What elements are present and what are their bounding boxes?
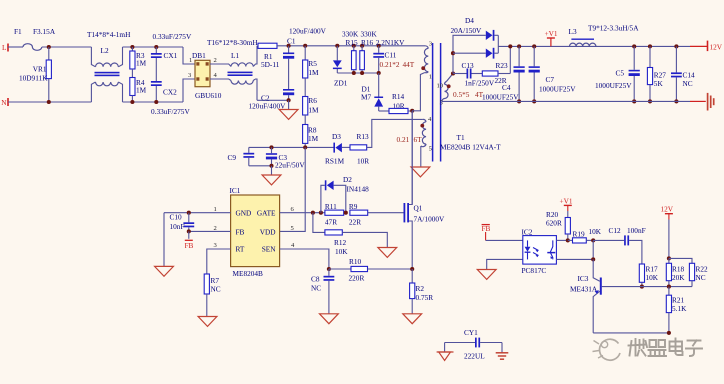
junction C3 bottom	[269, 164, 273, 168]
wire secondary to D4	[453, 35, 486, 73]
svg-text:L: L	[2, 43, 7, 52]
svg-text:C7: C7	[546, 75, 555, 84]
svg-text:L1: L1	[231, 51, 239, 60]
svg-text:10K: 10K	[589, 227, 602, 236]
inductor L3 T9*12-3.3uH/5A	[569, 24, 640, 47]
winding note 0.21 6T	[397, 135, 423, 144]
svg-text:ME8204B: ME8204B	[233, 269, 264, 278]
optocoupler IC2 PC817C	[522, 228, 557, 276]
junction source node	[410, 267, 414, 271]
junction C4 bottom	[517, 99, 521, 103]
junction FB node	[187, 229, 191, 233]
svg-text:NC: NC	[211, 285, 221, 294]
svg-text:CX1: CX1	[164, 51, 178, 60]
junction C7 bottom	[532, 99, 536, 103]
wire FB to opto anode	[486, 239, 523, 241]
bridge rectifier DB1 GBU610	[192, 51, 222, 100]
inductor L2 common mode choke T14*8*4-1mH	[87, 30, 131, 102]
resistor R22 NC	[689, 263, 708, 286]
capacitor C5 1000UF25V	[595, 46, 640, 101]
pin 4 DB1	[214, 72, 218, 79]
svg-text:47R: 47R	[325, 218, 337, 227]
svg-text:R16: R16	[361, 38, 374, 47]
svg-text:6T: 6T	[414, 135, 423, 144]
capacitor C4 1000UF25V	[482, 46, 525, 101]
svg-text:ME431A: ME431A	[570, 285, 598, 294]
net label FB left	[185, 231, 194, 250]
transformer T1 aux winding 6T	[421, 119, 426, 167]
resistor R19 10K	[568, 227, 602, 243]
svg-text:1M: 1M	[308, 134, 319, 143]
wire opto collector to R20	[556, 239, 567, 241]
diode D2 IN4148	[321, 175, 369, 213]
svg-text:T14*8*4-1mH: T14*8*4-1mH	[87, 30, 131, 39]
capacitor C13 1nF/250V	[453, 61, 495, 88]
svg-text:R10: R10	[349, 257, 362, 266]
resistor R27 5K	[647, 46, 666, 101]
wire L2 to bridge top rail	[123, 46, 184, 48]
pin 1 IC1	[214, 206, 217, 213]
wire R9 to gate	[368, 212, 404, 214]
resistor R1 5D-11	[258, 43, 280, 69]
diode D4 lower	[486, 48, 499, 59]
transistor Q2 mosfet Q1 7A/1000V	[404, 111, 446, 269]
svg-text:R23: R23	[496, 61, 509, 70]
wire D4 lower branch	[453, 52, 486, 54]
wire fuse to L2	[42, 46, 92, 48]
svg-text:0.33uF/275V: 0.33uF/275V	[153, 32, 192, 41]
junction D2 left tap	[319, 211, 323, 215]
svg-text:10: 10	[437, 83, 444, 90]
svg-text:120uF/400V: 120uF/400V	[289, 27, 327, 36]
wire R1 to C1 node	[277, 45, 305, 47]
svg-text:1M: 1M	[136, 86, 147, 95]
svg-text:222UL: 222UL	[464, 352, 485, 361]
resistor R11 47R	[325, 202, 344, 227]
svg-text:T16*12*8-30mH: T16*12*8-30mH	[207, 38, 258, 47]
wire SEN pin4	[280, 249, 329, 269]
resistor R12 10K	[313, 213, 387, 257]
wire to R22 top	[669, 258, 692, 263]
svg-text:C13: C13	[462, 61, 475, 70]
ground under IC1 GND	[155, 213, 174, 277]
svg-text:10nF: 10nF	[170, 222, 185, 231]
resistor R4 1M	[130, 78, 147, 103]
svg-text:R9: R9	[349, 202, 358, 211]
resistor R17 10K	[639, 264, 658, 287]
wire to DB1 pin1	[183, 47, 195, 64]
svg-text:100nF: 100nF	[627, 226, 646, 235]
transformer T1 core	[433, 43, 441, 162]
net label FB right	[482, 224, 491, 240]
svg-text:FB: FB	[185, 241, 194, 250]
junction R15 bottom	[352, 71, 356, 75]
svg-text:R11: R11	[325, 202, 337, 211]
junction C14 bottom	[674, 99, 678, 103]
wire L1 bottom to C2	[257, 99, 289, 101]
wire clamp bottom line	[337, 72, 378, 74]
winding note 0.5*5 4T	[453, 90, 484, 99]
svg-text:R14: R14	[392, 92, 405, 101]
svg-text:M7: M7	[361, 93, 371, 102]
resistor R2 0.75R	[410, 269, 434, 314]
junction R21 bottom	[667, 331, 671, 335]
svg-text:220R: 220R	[349, 273, 365, 282]
svg-text:D4: D4	[465, 16, 474, 25]
svg-text:N: N	[1, 98, 7, 107]
svg-text:10D911K: 10D911K	[19, 73, 48, 82]
junction C1 top	[287, 37, 296, 48]
svg-text:C10: C10	[170, 213, 183, 222]
node VDD line	[249, 146, 334, 148]
pin 4 IC1	[291, 242, 295, 249]
svg-text:20A/150V: 20A/150V	[451, 26, 483, 35]
svg-text:+V1: +V1	[545, 29, 558, 38]
wire snubber to rail	[509, 46, 511, 73]
svg-text:1000UF25V: 1000UF25V	[539, 84, 576, 93]
svg-text:10K: 10K	[646, 273, 659, 282]
wire R6-R8	[304, 115, 306, 125]
junction C3 top	[269, 145, 273, 149]
wire D4 output manifold	[498, 35, 690, 53]
svg-text:1M: 1M	[136, 59, 147, 68]
svg-text:12V: 12V	[661, 205, 674, 214]
svg-text:VDD: VDD	[260, 228, 276, 237]
resistor R3 1M	[130, 47, 147, 69]
junction C10 top	[187, 211, 191, 215]
winding note 0.21*2 44T	[380, 60, 415, 69]
capacitor C10 10nF	[170, 213, 195, 232]
capacitor C3 22uF/50V	[266, 147, 305, 169]
resistor R23 22R	[482, 61, 510, 85]
junction C11 top	[377, 44, 381, 48]
wire FB pin2	[189, 230, 231, 232]
svg-text:620R: 620R	[546, 218, 562, 227]
phase dot primary	[421, 66, 425, 70]
capacitor CX2 0.33uF/275V	[151, 81, 191, 116]
junction R20 bottom	[566, 238, 570, 242]
svg-text:F3.15A: F3.15A	[33, 27, 56, 36]
junction CX1 top	[154, 45, 158, 49]
pin 1 DB1	[189, 57, 192, 64]
svg-text:0.5*5: 0.5*5	[453, 90, 470, 99]
node 12V label right	[661, 205, 674, 259]
label T1 ME8204B 12V4A-T	[440, 133, 501, 152]
resistor R13 10R	[350, 132, 369, 166]
capacitor C1 120uF/400V	[283, 27, 327, 90]
svg-text:SEN: SEN	[262, 245, 277, 254]
junction R15 top	[352, 44, 356, 48]
junction R16 bottom	[360, 71, 364, 75]
resistor R8 1M	[303, 125, 319, 148]
wire opto cathode to ground	[487, 259, 523, 269]
svg-text:1M: 1M	[308, 68, 319, 77]
svg-text:22R: 22R	[349, 218, 361, 227]
svg-text:7A/1000V: 7A/1000V	[414, 215, 446, 224]
junction ZD1 top	[335, 44, 339, 48]
svg-text:1000UF25V: 1000UF25V	[482, 93, 519, 102]
junction C5 top	[632, 44, 636, 48]
wire secondary bottom rail	[442, 99, 690, 102]
svg-text:D2: D2	[343, 175, 352, 184]
wire R5-R6	[304, 78, 306, 97]
junction R12 tap	[311, 211, 315, 215]
svg-text:1: 1	[429, 74, 432, 81]
svg-text:C8: C8	[311, 275, 320, 284]
junction drain node	[410, 109, 414, 113]
svg-text:20K: 20K	[672, 273, 685, 282]
svg-text:IC2: IC2	[522, 228, 533, 237]
svg-text:44T: 44T	[403, 60, 415, 69]
ground under R2	[403, 314, 422, 324]
svg-text:IN4148: IN4148	[347, 185, 370, 194]
junction C14 top	[674, 44, 678, 48]
inductor L1 T16*12*8-30mH	[207, 38, 258, 100]
wire L2 to bridge bottom rail	[123, 101, 184, 103]
power +V1 at R20	[560, 197, 573, 212]
wire R13 to aux pin4	[367, 119, 423, 147]
svg-text:IC1: IC1	[230, 186, 241, 195]
svg-text:C5: C5	[616, 69, 625, 78]
phase dot aux	[420, 124, 424, 128]
ground under C3	[262, 166, 281, 185]
svg-text:C9: C9	[228, 153, 237, 162]
junction R27 bottom	[648, 99, 652, 103]
svg-text:1: 1	[214, 206, 217, 213]
junction R18 bottom	[667, 285, 671, 289]
ground under opto	[477, 270, 496, 280]
svg-text:C4: C4	[502, 83, 511, 92]
resistor R14 10R	[389, 92, 412, 114]
pin 2 DB1	[214, 57, 217, 64]
wire to DB1 pin3	[183, 79, 195, 102]
resistor R18 20K	[666, 258, 685, 286]
svg-text:D3: D3	[332, 132, 341, 141]
watermark logo	[593, 339, 621, 360]
wire drain vertical	[411, 111, 413, 205]
resistor R15 330K	[342, 30, 359, 74]
junction CX2 bottom	[154, 100, 158, 104]
svg-text:C12: C12	[609, 226, 622, 235]
svg-text:+V1: +V1	[560, 197, 573, 206]
junction R17 bottom	[640, 285, 644, 289]
capacitor C8 NC	[311, 269, 334, 314]
phase dot secondary	[447, 84, 451, 88]
shunt regulator IC3 ME431A	[570, 259, 602, 333]
svg-text:10K: 10K	[335, 247, 348, 256]
watermark text	[629, 339, 703, 357]
wire VDD drop	[280, 147, 306, 231]
svg-text:R2: R2	[416, 284, 425, 293]
svg-text:IC3: IC3	[578, 274, 589, 283]
node L (AC live terminal)	[2, 43, 8, 52]
wire N to L2	[8, 101, 91, 103]
wire GND pin1	[164, 212, 231, 214]
svg-text:5D-11: 5D-11	[261, 60, 280, 69]
junction R19 right	[591, 238, 595, 242]
svg-text:CX2: CX2	[163, 88, 177, 97]
svg-text:ZD1: ZD1	[334, 79, 348, 88]
svg-text:GND: GND	[236, 208, 252, 217]
svg-text:1000UF25V: 1000UF25V	[595, 81, 632, 90]
pin 3 DB1	[188, 72, 192, 79]
pin 6 IC1	[291, 206, 295, 213]
ground CY1 left	[437, 343, 454, 361]
svg-text:R5: R5	[308, 59, 317, 68]
junction R5 top	[303, 44, 307, 48]
ground under C8	[320, 314, 339, 324]
capacitor C12 100nF	[593, 226, 645, 264]
capacitor C9	[228, 147, 272, 165]
svg-text:R15: R15	[346, 38, 359, 47]
junction C4 top	[517, 44, 521, 48]
transformer T1 secondary winding 4T	[442, 74, 453, 102]
capacitor C2 120uF/400V	[249, 89, 295, 111]
capacitor C7 1000UF25V	[529, 46, 577, 101]
pin 3 IC1	[214, 242, 218, 249]
svg-text:2.2N1KV: 2.2N1KV	[376, 38, 405, 47]
ground under R12	[378, 248, 397, 258]
node N (AC neutral terminal)	[1, 98, 8, 107]
capacitor CY1 222UL	[445, 328, 502, 361]
svg-text:ME8204B 12V4A-T: ME8204B 12V4A-T	[440, 143, 501, 152]
svg-text:R6: R6	[308, 96, 317, 105]
svg-text:R13: R13	[357, 132, 370, 141]
ground chassis right	[690, 93, 714, 111]
junction 12V divider top	[667, 256, 671, 260]
diode D4 upper 20A/150V	[451, 16, 499, 41]
junction VR1 bottom	[47, 100, 51, 104]
transformer T1 primary winding 44T	[424, 46, 428, 73]
junction D4 lower branch	[451, 51, 455, 55]
svg-text:NC: NC	[311, 284, 321, 293]
svg-text:0.33uF/275V: 0.33uF/275V	[151, 107, 190, 116]
fuse F1 F3.15A	[14, 27, 56, 50]
svg-text:1nF/250V: 1nF/250V	[465, 79, 495, 88]
svg-text:R19: R19	[573, 229, 586, 238]
junction R11-R9	[344, 211, 348, 215]
pin 5 IC1	[291, 225, 295, 232]
junction R4 bottom	[130, 100, 134, 104]
svg-text:22uF/50V: 22uF/50V	[275, 161, 305, 170]
ground under R7	[198, 294, 217, 326]
svg-text:5.1K: 5.1K	[672, 304, 687, 313]
svg-text:PC817C: PC817C	[522, 266, 547, 275]
svg-text:T1: T1	[457, 133, 465, 142]
svg-text:0.75R: 0.75R	[416, 293, 434, 302]
svg-text:1M: 1M	[308, 106, 319, 115]
wire bus rail to transformer	[305, 45, 425, 47]
wire GATE line	[280, 212, 325, 214]
svg-text:T9*12-3.3uH/5A: T9*12-3.3uH/5A	[588, 24, 639, 33]
svg-text:RS1M: RS1M	[325, 157, 345, 166]
ground under aux winding	[411, 167, 430, 177]
resistor R5 1M	[303, 46, 319, 78]
node 12V output terminal	[690, 41, 723, 52]
pin 2 IC1	[214, 225, 217, 232]
svg-text:GBU610: GBU610	[195, 91, 222, 100]
svg-text:C11: C11	[385, 51, 397, 60]
wire RT pin3	[207, 249, 231, 274]
capacitor C11 2.2N1KV	[373, 38, 405, 73]
svg-text:C1: C1	[287, 37, 296, 46]
junction C11 bottom	[377, 71, 381, 75]
wire L to fuse	[8, 46, 23, 48]
junction C5 bottom	[632, 99, 636, 103]
resistor R9 22R	[349, 202, 368, 227]
svg-text:VR1: VR1	[33, 64, 47, 73]
junction R3 top	[130, 45, 134, 49]
svg-text:R12: R12	[334, 238, 347, 247]
capacitor C14 NC	[671, 46, 695, 101]
diode D3 RS1M	[325, 132, 350, 166]
resistor R6 1M	[303, 96, 319, 115]
svg-text:0.21*2: 0.21*2	[380, 60, 400, 69]
svg-text:FB: FB	[482, 224, 491, 233]
junction C8-R10	[327, 267, 331, 271]
svg-text:2: 2	[214, 57, 217, 64]
junction C7 top	[532, 44, 536, 48]
zener diode ZD1	[333, 46, 348, 88]
wire R3-R4	[131, 69, 133, 78]
svg-text:0.21: 0.21	[397, 135, 410, 144]
junction R16 top	[360, 44, 364, 48]
svg-text:L2: L2	[101, 46, 109, 55]
wire REF line	[602, 286, 692, 288]
svg-text:RT: RT	[236, 245, 245, 254]
ground earth CY1 right	[496, 343, 509, 360]
svg-text:CY1: CY1	[464, 328, 478, 337]
wire drain node to primary pin1	[412, 73, 425, 111]
diode D1 M7	[361, 73, 389, 111]
svg-text:12V: 12V	[710, 43, 723, 52]
resistor R20 620R	[546, 210, 570, 241]
svg-text:F1: F1	[14, 27, 22, 36]
pin 1 T1	[429, 74, 432, 81]
svg-text:L3: L3	[569, 27, 577, 36]
svg-text:DB1: DB1	[192, 51, 206, 60]
resistor R10 220R	[329, 257, 412, 282]
junction secondary top node	[451, 71, 455, 75]
junction opto emitter node	[591, 257, 595, 261]
ground under C2	[279, 100, 298, 119]
junction snubber top	[508, 44, 512, 48]
svg-text:10R: 10R	[357, 157, 369, 166]
junction R27 top	[648, 44, 652, 48]
svg-text:5K: 5K	[654, 79, 664, 88]
resistor R7 NC	[204, 274, 221, 294]
svg-text:NC: NC	[683, 79, 693, 88]
power +V1	[545, 29, 558, 46]
varistor VR1 10D911K	[19, 47, 51, 102]
pin 5 T1 secondary	[440, 100, 444, 107]
svg-text:Q1: Q1	[414, 204, 423, 213]
resistor R16 330K	[360, 30, 378, 74]
pin 4 T1	[428, 116, 432, 123]
wire opto emitter line	[556, 258, 593, 260]
wire TL431 anode rail	[593, 332, 669, 334]
pin 5 T1 aux	[429, 146, 433, 153]
resistor R21 5.1K	[666, 287, 687, 333]
svg-text:FB: FB	[236, 228, 245, 237]
junction VDD node	[303, 145, 307, 149]
junction C2 bottom	[287, 98, 291, 102]
junction VR1 top	[47, 45, 51, 49]
svg-text:GATE: GATE	[257, 208, 276, 217]
op-amp U1 controller IC1 ME8204B	[230, 186, 280, 278]
pin 3 T1	[429, 41, 433, 48]
pin 10 T1	[437, 83, 444, 90]
